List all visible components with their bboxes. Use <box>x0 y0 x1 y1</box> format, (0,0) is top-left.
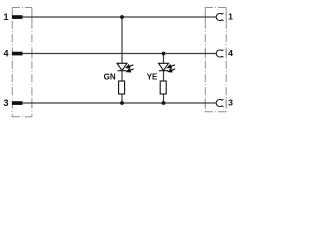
svg-text:4: 4 <box>228 48 233 58</box>
right connector housing outline (dash-dot) <box>205 8 226 112</box>
pin 3 label (left) <box>3 98 8 108</box>
socket contact 3 (right) <box>216 100 223 107</box>
pin 4 label (left) <box>3 49 8 59</box>
junction YE-middle wire <box>162 52 166 56</box>
svg-text:1: 1 <box>3 12 8 22</box>
label GN <box>104 72 116 81</box>
svg-text:YE: YE <box>147 72 158 81</box>
LED YE <box>159 63 169 70</box>
socket 1 label (right) <box>228 12 233 22</box>
wire YE branch vertical <box>163 54 165 104</box>
socket contact 4 (right) <box>216 50 223 57</box>
resistor YE <box>160 81 166 94</box>
pin contact 3 (left, black) <box>12 101 23 105</box>
wire pin3 to socket3 (bottom) <box>23 102 217 104</box>
pin contact 1 (left, black) <box>12 15 23 19</box>
pin 1 label (left) <box>3 12 8 22</box>
label YE <box>147 72 158 81</box>
left connector housing outline (dash-dot) <box>12 8 32 117</box>
LED YE light arrows <box>168 65 175 72</box>
socket 4 label (right) <box>228 48 233 58</box>
socket contact 1 (right) <box>216 14 223 21</box>
svg-text:3: 3 <box>3 98 8 108</box>
svg-text:3: 3 <box>228 98 233 108</box>
svg-text:1: 1 <box>228 12 233 22</box>
wire pin1 to socket1 (top) <box>23 16 217 18</box>
svg-text:4: 4 <box>3 49 8 59</box>
housing outline dash crossings at wire rows <box>32 13 226 107</box>
junction GN-bottom wire <box>120 101 124 105</box>
wire GN branch vertical <box>121 17 123 103</box>
junction GN-top wire <box>120 15 124 19</box>
resistor GN <box>119 81 125 94</box>
LED GN <box>117 63 127 70</box>
socket 3 label (right) <box>228 98 233 108</box>
wire pin4 to socket4 (middle) <box>23 53 217 55</box>
svg-text:GN: GN <box>104 72 116 81</box>
pin contact 4 (left, black) <box>12 52 23 56</box>
junction YE-bottom wire <box>162 101 166 105</box>
LED GN light arrows <box>126 65 133 72</box>
